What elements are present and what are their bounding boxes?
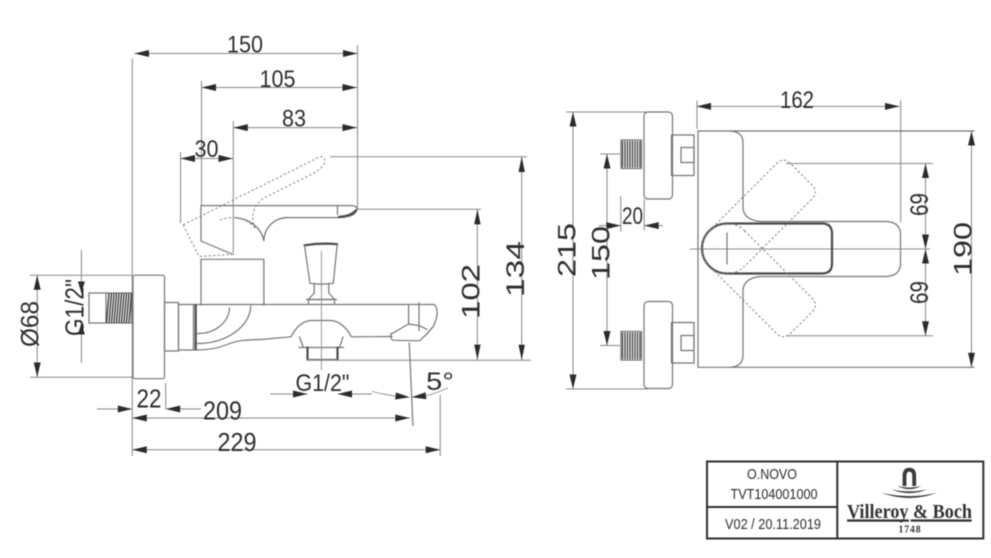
svg-text:150: 150	[588, 226, 616, 280]
spacer ring behind plate	[165, 303, 179, 352]
svg-text:22: 22	[137, 384, 162, 414]
wordmark underline	[847, 519, 909, 521]
centerline horizontal	[690, 248, 930, 250]
ext 105 left	[201, 81, 203, 205]
body bottom edge + 190 ext	[698, 366, 974, 368]
top wall plate	[644, 112, 673, 199]
ext for 102 (lever tip)	[358, 208, 482, 210]
svg-text:209: 209	[203, 396, 242, 426]
LEFT-VIEW	[17, 32, 532, 458]
dashed handle rotated down	[692, 213, 819, 340]
inlet pipe stub	[89, 293, 106, 323]
body left edge + chin	[201, 206, 233, 255]
handle housing tube outline	[760, 222, 901, 277]
tube trim ring double line	[193, 305, 195, 350]
dashed handle rotated up	[692, 157, 819, 284]
spout mouth	[391, 324, 432, 341]
body tube top	[179, 304, 435, 306]
wall plate (escutcheon, side view)	[133, 275, 165, 379]
ext 30 left	[180, 152, 182, 223]
wall extension line	[131, 59, 133, 457]
VB logo bowl arcs	[897, 486, 921, 489]
valve body column	[201, 259, 264, 305]
raised handle (dashed, rotated -30deg)	[183, 155, 344, 268]
diverter knob	[305, 244, 338, 370]
dim 229	[132, 395, 440, 457]
5 degree arc with arrows	[372, 368, 454, 400]
shower outlet nipple G1/2	[308, 348, 338, 360]
svg-text:215: 215	[554, 223, 582, 277]
ext 150 top/bottom	[600, 153, 620, 155]
TITLE-BLOCK	[707, 462, 983, 539]
ext 162 right	[900, 101, 902, 223]
dome skirt	[299, 337, 344, 348]
body S-curve to lever	[264, 218, 287, 241]
svg-text:102: 102	[458, 264, 486, 319]
svg-text:30: 30	[195, 136, 219, 163]
svg-text:5°: 5°	[426, 368, 454, 396]
lever handle (horizontal)	[201, 206, 357, 218]
svg-text:V02 / 20.11.2019: V02 / 20.11.2019	[725, 517, 821, 533]
shower outlet dome	[291, 321, 352, 337]
dim 215	[554, 112, 582, 389]
dim 69 lower	[906, 249, 934, 336]
dim 209	[132, 396, 410, 426]
threaded section (hatched)	[106, 293, 132, 323]
dim 22	[97, 383, 201, 414]
right extension line for 150/105/83	[357, 45, 359, 209]
svg-text:162: 162	[780, 87, 814, 114]
svg-text:G1/2": G1/2"	[62, 279, 90, 336]
elbow arcs inside tube	[196, 306, 251, 343]
ext 83 left	[232, 121, 234, 253]
svg-text:83: 83	[282, 106, 306, 133]
bottom wall plate	[644, 302, 673, 389]
ext 69 top	[786, 163, 933, 165]
ext 162 left	[696, 101, 698, 130]
svg-text:69: 69	[906, 281, 934, 304]
5 degree spout axis line	[409, 343, 413, 427]
dim 150 top	[135, 32, 358, 59]
body left edge	[697, 131, 699, 367]
dim Ø68	[17, 275, 134, 377]
tube underside profile	[179, 305, 292, 351]
RIGHT-VIEW	[554, 87, 978, 389]
spout tip right profile	[427, 304, 437, 333]
svg-text:TVT104001000: TVT104001000	[731, 487, 818, 503]
dim 162	[697, 87, 900, 114]
dim 69 upper	[906, 164, 934, 250]
svg-text:Ø68: Ø68	[17, 301, 45, 347]
VB logo crown arch	[903, 468, 917, 486]
ext 69 bottom	[786, 335, 933, 337]
body right profile lower	[731, 277, 760, 368]
ext for 134 (handle tip raised)	[330, 156, 527, 158]
baseline bottom reference	[307, 359, 531, 361]
ext 215 top/bottom	[566, 111, 648, 113]
dim 102	[458, 209, 486, 360]
dim 134	[502, 157, 530, 360]
body top edge + 190 ext	[698, 130, 974, 132]
dim G1/2 shower outlet	[270, 370, 372, 398]
bottom inlet thread (hatched)	[621, 332, 642, 361]
svg-text:O.NOVO: O.NOVO	[747, 467, 797, 483]
lever tip underside accent	[339, 211, 356, 217]
svg-text:134: 134	[502, 241, 530, 297]
dim 83	[233, 106, 357, 133]
dim 190	[950, 131, 978, 367]
svg-text:G1/2": G1/2"	[296, 370, 350, 397]
svg-text:150: 150	[227, 32, 263, 59]
svg-text:105: 105	[260, 66, 296, 93]
svg-text:20: 20	[622, 203, 643, 230]
label G1/2 wall (vertical)	[62, 250, 90, 363]
dim 30	[181, 136, 234, 163]
cartridge dome arc	[236, 218, 264, 241]
handle grip (bold)	[702, 224, 832, 274]
svg-text:190: 190	[950, 222, 978, 276]
tube underside right of dome	[352, 336, 393, 338]
dim 150 (inlet centers)	[588, 154, 616, 346]
dim 105	[202, 66, 358, 93]
svg-text:69: 69	[906, 193, 934, 216]
svg-text:1748: 1748	[899, 525, 922, 536]
table frame	[707, 462, 983, 539]
dim 20	[599, 196, 663, 232]
grip tick	[726, 233, 728, 264]
svg-text:229: 229	[218, 427, 257, 457]
bottom connector	[672, 323, 695, 364]
top connector	[672, 135, 695, 176]
body right profile upper	[731, 131, 760, 222]
top inlet thread (hatched)	[621, 140, 642, 169]
